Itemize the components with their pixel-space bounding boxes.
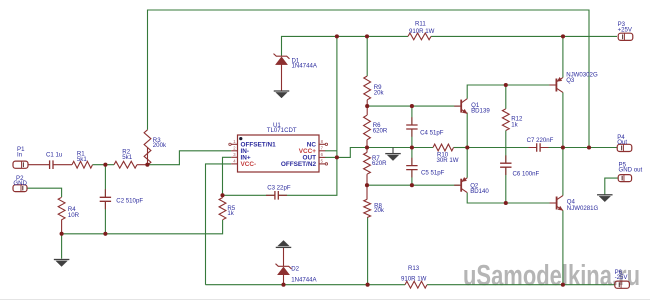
wire: R6 bottom to R7 top <box>366 140 368 153</box>
op-amp U1 pin 4 stub <box>231 163 237 165</box>
wire: R7 bottom to lower bias node <box>366 174 368 185</box>
wire: Q1 emitter down to output node <box>466 113 468 148</box>
op-amp U1 pin 1 stub <box>231 143 237 145</box>
wire: op-amp IN+ down to R5 top node <box>223 157 232 195</box>
capacitor C5 <box>406 166 417 170</box>
wire: D2 anode to -25V rail <box>283 275 285 285</box>
svg-text:20k: 20k <box>374 207 385 214</box>
wire: +25V rail right of R11 to P3 <box>431 35 617 37</box>
wire: node down to R8 <box>366 185 368 199</box>
svg-text:10R: 10R <box>68 212 80 219</box>
svg-text:BD140: BD140 <box>470 188 489 195</box>
resistor R13 <box>405 281 427 288</box>
op-amp U1 pin 3 stub <box>231 156 237 158</box>
junction: R7/R8/lower bias node <box>365 183 369 187</box>
op-amp U1 pin 7 stub <box>319 150 325 152</box>
ground below R4 <box>54 260 70 267</box>
svg-text:200k: 200k <box>153 142 167 149</box>
port P3 +25V <box>618 33 633 40</box>
svg-text:Q3: Q3 <box>566 77 575 84</box>
op-amp U1 pin 5 open circle <box>325 163 327 165</box>
transistor Q1 BD139 <box>454 99 467 114</box>
svg-text:OFFSET/N2: OFFSET/N2 <box>281 161 317 168</box>
capacitor C3 pin stubs <box>266 194 287 196</box>
svg-text:C3 22pF: C3 22pF <box>267 185 291 192</box>
svg-text:C7 220nF: C7 220nF <box>527 137 554 144</box>
ground below D1 <box>274 91 290 98</box>
wire: VCC+ pin to +V column <box>325 150 337 152</box>
resistor R3 <box>144 130 151 165</box>
wire: -25V rail left of R13 <box>206 284 406 286</box>
svg-text:20k: 20k <box>374 89 385 96</box>
junction: Q4 / -25V rail <box>561 283 565 287</box>
resistor R9 <box>364 76 371 100</box>
inverted ground above D2 <box>276 240 292 247</box>
svg-text:VCC-: VCC- <box>241 161 257 168</box>
resistor R12 <box>502 109 509 131</box>
port P1 In <box>13 161 28 168</box>
wire: R12 bottom to C6 top <box>505 131 507 164</box>
transistor Q2 BD140 <box>454 177 467 192</box>
svg-text:NJW0281G: NJW0281G <box>567 205 599 212</box>
junction: IN+/R5/C3 node <box>220 193 224 197</box>
wire: C4 bottom to mid bus <box>411 129 413 148</box>
wire: VCC+/OUT column down to C3 right <box>278 36 337 195</box>
wire: lower bias node to Q2 base <box>367 184 460 186</box>
wire: mid bias bus left of R10 <box>350 147 433 149</box>
wire: +25V down to Q3 collector <box>562 36 564 77</box>
wire: C1 to R1 <box>53 164 72 166</box>
wire: collector bus down to R12 <box>505 85 507 109</box>
transistor Q4 NJW0281G <box>550 196 563 211</box>
wire: R10 right to driver emitters node <box>454 147 468 149</box>
wire: R8 bottom to -25V rail <box>367 218 369 285</box>
svg-text:+25V: +25V <box>618 26 633 33</box>
svg-text:5k1: 5k1 <box>122 154 132 161</box>
svg-text:R11: R11 <box>415 20 426 27</box>
wire: ground bus to GND symbol <box>61 234 63 259</box>
op-amp U1 pin 8 stub <box>319 143 325 145</box>
ground at mid bias bus <box>385 154 401 161</box>
wire: op-amp VCC- down to -25V rail <box>206 164 232 285</box>
wire: Q1 collector to Q3 base <box>467 85 556 99</box>
ground at P5 GND out <box>597 195 613 202</box>
wire: D2 cathode up to inverted ground <box>283 248 285 267</box>
junction: R1/R2/C2 node <box>103 163 107 167</box>
resistor R5 <box>219 198 226 220</box>
resistor R8 <box>364 199 371 217</box>
svg-text:uSamodelkina.ru: uSamodelkina.ru <box>463 260 640 292</box>
svg-text:BD139: BD139 <box>471 108 490 115</box>
wire: R1 to R2 via C2 node <box>93 164 115 166</box>
junction: C2 bottom/ground bus <box>103 232 107 236</box>
resistor R6 <box>364 115 371 140</box>
wire: P5 GND out to ground symbol <box>605 178 618 195</box>
capacitor C5 pin stubs <box>411 158 413 178</box>
svg-text:620R: 620R <box>372 160 387 167</box>
svg-text:1k: 1k <box>227 210 234 217</box>
svg-text:Out: Out <box>617 139 627 146</box>
junction: +V rail / column <box>335 34 339 38</box>
wire: output rail down to Q4 <box>562 148 564 196</box>
wire: R2 to R3 node <box>137 164 147 166</box>
junction: C6 bottom node <box>504 201 508 205</box>
junction: D2 / -25V rail <box>281 283 285 287</box>
wire: Q3 collector down to output rail <box>562 92 564 147</box>
junction: R12 top node <box>504 83 508 87</box>
capacitor C7 pin stubs <box>529 147 549 149</box>
op-amp U1 pin 6 stub <box>319 156 325 158</box>
wire: node down to R6 <box>366 106 368 115</box>
wire: signal node to op-amp IN- <box>147 151 231 165</box>
capacitor C4 pin stubs <box>411 117 413 137</box>
port P4 Out <box>617 144 632 151</box>
capacitor C2 pin stubs <box>104 189 106 209</box>
svg-text:1N4744A: 1N4744A <box>292 62 318 69</box>
resistor R7 <box>364 152 371 174</box>
wire: analog ground bus to R5 bottom <box>62 220 223 234</box>
wire: output node to C7 <box>467 147 537 149</box>
wire: feedback net top rail <box>148 10 590 148</box>
svg-text:C4 51pF: C4 51pF <box>420 129 444 136</box>
wire: +V rail down to R9 <box>366 36 368 76</box>
junction: Q3/Q4 output rail node <box>561 145 565 149</box>
op-amp U1 pin-1 marker dot <box>239 137 242 140</box>
port P6 -25V <box>615 281 630 288</box>
capacitor C6 pin stubs <box>505 155 507 175</box>
resistor R2 <box>114 161 137 168</box>
svg-text:910R 1W: 910R 1W <box>409 28 435 35</box>
wire: Q4 emitter down to -25V rail <box>562 210 564 284</box>
svg-text:-25V: -25V <box>615 274 629 281</box>
port P5 GND out <box>618 175 631 182</box>
wire: C2 bottom to ground bus <box>104 201 106 234</box>
op-amp U1 pin 1 open circle <box>229 143 231 145</box>
wire: C7 to P4 Out <box>540 147 617 149</box>
bottom edge artifact line <box>0 299 650 301</box>
junction: R4/ground bus <box>60 232 64 236</box>
zener diode D2 <box>276 264 292 275</box>
wire: mid bus to signal ground <box>392 148 394 154</box>
op-amp U1 pin 2 stub <box>231 150 237 152</box>
wire: bias node to Q1 base <box>367 105 460 107</box>
wire: OUT pin to column <box>325 156 337 158</box>
svg-text:5k1: 5k1 <box>77 156 87 163</box>
svg-text:30R 1W: 30R 1W <box>437 157 459 164</box>
wire: signal node down to C2 top <box>104 165 106 198</box>
wire: R9 bottom to node <box>366 100 368 106</box>
capacitor C3 <box>275 191 278 200</box>
capacitor C4 <box>406 125 417 129</box>
wire: node down to C4 <box>411 106 413 125</box>
junction: C4/C5 mid bus node <box>410 145 414 149</box>
wire: R4 bottom to ground bus <box>61 220 63 234</box>
wire: C5 bottom to lower bias bus <box>411 170 413 186</box>
op-amp U1 pin 8 open circle <box>325 143 327 145</box>
svg-text:620R: 620R <box>373 127 388 134</box>
resistor R1 <box>72 161 92 168</box>
wire: mid bus down to C5 <box>411 148 413 166</box>
junction: feedback column/output rail <box>587 145 591 149</box>
svg-text:D2: D2 <box>291 265 299 272</box>
op-amp U1 TL071CDT body <box>238 135 320 172</box>
wire: node to R5 <box>222 195 224 197</box>
junction: R6/R7/mid bus node <box>365 145 369 149</box>
junction: +25V rail / Q3 <box>561 34 565 38</box>
junction: +V rail / R9 <box>365 34 369 38</box>
svg-text:In: In <box>17 152 22 159</box>
capacitor C1 <box>50 160 53 169</box>
svg-text:1N4744A: 1N4744A <box>291 276 317 283</box>
svg-text:R13: R13 <box>408 265 420 272</box>
wire: C3 left to R5 top node <box>223 194 275 196</box>
svg-text:C1 1u: C1 1u <box>46 151 62 158</box>
svg-text:GND: GND <box>13 180 27 187</box>
resistor R11 <box>408 33 431 40</box>
wire: D1 anode to ground <box>281 64 283 91</box>
junction: R2/R3/IN- node <box>145 163 149 167</box>
capacitor C7 <box>537 143 540 152</box>
svg-text:C2 510pF: C2 510pF <box>116 198 143 205</box>
wire: -25V rail right of R13 to P6 <box>427 284 615 286</box>
wire: +V rail left of R11 <box>282 36 409 56</box>
junction: R8 / -25V rail <box>366 283 370 287</box>
wire: C6 bottom to Q2 collector bus <box>505 167 507 203</box>
wire: Q2 emitter up to output node <box>466 148 468 178</box>
junction: C5 bottom node <box>410 183 414 187</box>
svg-text:1k: 1k <box>511 121 518 128</box>
wire: P1 to C1 <box>28 164 50 166</box>
svg-text:GND out: GND out <box>619 167 643 174</box>
junction: C4 top node <box>410 104 414 108</box>
zener diode D1 <box>274 54 290 65</box>
wire: R3 bottom to signal node <box>147 148 149 165</box>
resistor R4 <box>58 197 65 220</box>
junction: OUT node on column <box>335 155 339 159</box>
wire: OUT jog to R6/R7 node <box>337 148 367 158</box>
svg-text:C6 100nF: C6 100nF <box>513 170 540 177</box>
capacitor C6 <box>500 163 511 167</box>
transistor Q3 NJW0302G <box>549 77 563 92</box>
svg-text:C5 51pF: C5 51pF <box>421 170 445 177</box>
junction: R9/R6/Q1 base node <box>365 104 369 108</box>
capacitor C2 <box>100 197 111 201</box>
resistor R10 <box>433 144 453 151</box>
op-amp U1 pin 5 stub <box>319 163 325 165</box>
svg-text:TL071CDT: TL071CDT <box>267 127 297 134</box>
wire: P2 GND to R4 top <box>27 188 62 197</box>
wire: Q2 collector to Q4 base <box>467 193 556 203</box>
junction: driver emitters/output node <box>465 145 469 149</box>
svg-text:910R 1W: 910R 1W <box>401 275 427 282</box>
port P2 GND <box>13 185 27 192</box>
